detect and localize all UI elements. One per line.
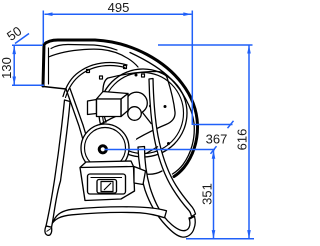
base skid tube	[51, 207, 167, 226]
arrow 616 bottom	[247, 230, 251, 239]
svg-text:616: 616	[235, 129, 250, 151]
terminal box right face	[121, 94, 128, 117]
duct inner top line	[51, 45, 117, 51]
bolt square plate 2	[142, 74, 145, 77]
arrow 351 bottom	[212, 230, 216, 239]
dim 616 top extension	[158, 44, 253, 46]
blue dimension annotations	[12, 11, 254, 239]
scroll lower-left edge	[66, 89, 86, 150]
bolt square plate 1	[100, 76, 103, 79]
volute inner curve	[63, 63, 127, 97]
arrow 616 top	[247, 45, 251, 54]
svg-text:130: 130	[0, 57, 14, 79]
bolt square duct 1	[87, 70, 90, 73]
arrow 351 top	[212, 150, 216, 159]
arrows	[12, 12, 250, 238]
motor rear bell circle A	[126, 92, 148, 114]
ground line	[186, 238, 254, 240]
motor face	[81, 124, 129, 172]
terminal box front face	[97, 99, 122, 117]
dim 495 left extension	[42, 11, 44, 44]
dim 367 tick	[228, 121, 234, 128]
switch box	[80, 161, 146, 201]
terminal box left flange	[88, 100, 97, 115]
motor rear bell circle B	[128, 107, 142, 121]
dim 130 line	[13, 46, 15, 85]
leg-rod connector	[146, 147, 158, 154]
shaft center line	[105, 149, 216, 151]
svg-text:351: 351	[200, 183, 215, 205]
dim 130 bottom extension	[12, 84, 44, 86]
svg-text:367: 367	[206, 132, 228, 147]
arrow 130 bottom	[12, 77, 16, 86]
arrow 495 left	[44, 12, 53, 16]
outlet flange	[43, 45, 44, 87]
rear support rod	[138, 79, 196, 238]
dim 351 line	[213, 151, 215, 239]
bolt square duct 2	[124, 66, 127, 69]
scroll rolled edge inner line	[130, 53, 194, 175]
hub	[99, 146, 106, 153]
scroll casing outer edge	[44, 40, 198, 177]
svg-text:495: 495	[108, 0, 130, 15]
cover ring outer	[99, 69, 187, 157]
dim 50 leader	[15, 34, 29, 44]
bell strut	[143, 113, 152, 125]
front foot cap	[45, 226, 52, 235]
duct bottom edge	[49, 49, 139, 67]
guard plate	[103, 72, 176, 146]
terminal box top face	[97, 92, 129, 100]
foot seam	[47, 229, 52, 232]
arrow 130 top	[12, 46, 16, 55]
side bracket	[134, 167, 146, 185]
rear foot joint line	[190, 216, 196, 219]
dim 130 top extension	[12, 44, 43, 46]
motor body	[84, 92, 147, 159]
dim 495 line	[45, 13, 192, 15]
dim 367 ref line	[193, 124, 233, 126]
dim 616 line	[248, 46, 250, 239]
arrow 495 right	[183, 12, 192, 16]
dim 495 right extension	[191, 11, 193, 126]
cover ring inner	[103, 73, 184, 154]
rear leg tube	[138, 147, 195, 238]
dim 351 tick	[211, 146, 217, 154]
front leg tube	[45, 100, 70, 235]
side plate bottom arc	[134, 170, 162, 174]
dim texts	[0, 0, 250, 205]
bolt dots	[135, 74, 171, 146]
duct and volute white wedge	[43, 40, 145, 97]
